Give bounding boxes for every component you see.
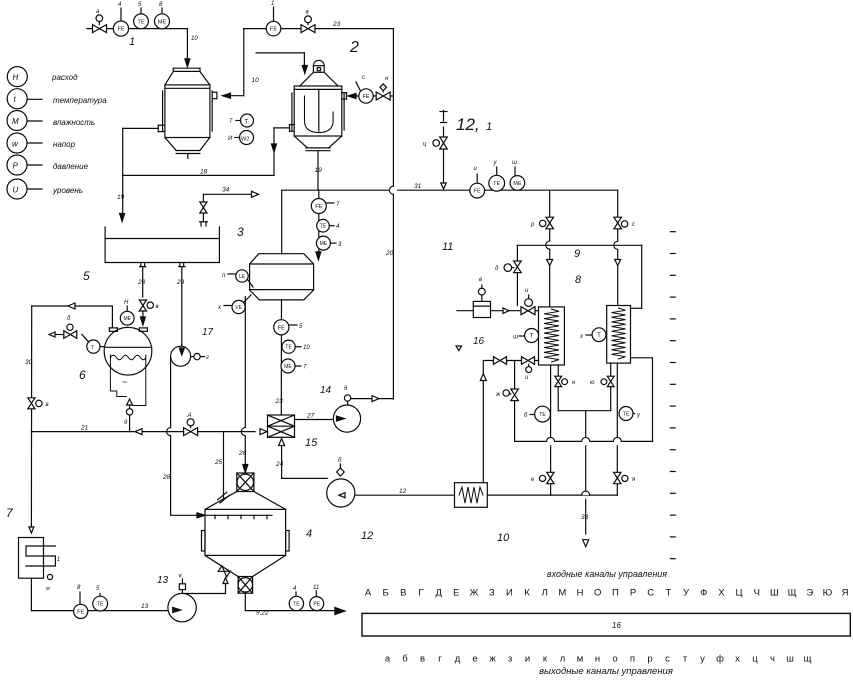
- vessel 1 shoulder: [165, 71, 173, 85]
- flow element FE5: [274, 320, 289, 335]
- svg-text:выходные каналы управления: выходные каналы управления: [539, 666, 673, 677]
- svg-text:н: н: [385, 76, 389, 82]
- svg-text:31: 31: [414, 183, 422, 190]
- moisture element ME1: [161, 8, 163, 14]
- wire branch into vessel2 right nozzle: [353, 95, 394, 97]
- vessel 4 bottom cone: [205, 555, 238, 576]
- svg-text:Т: Т: [245, 120, 249, 126]
- three-way valve at HX8 inlet: [521, 307, 528, 315]
- svg-text:16: 16: [612, 621, 621, 630]
- vessel 3 inner lines: [250, 263, 314, 265]
- svg-text:р: р: [647, 654, 652, 665]
- svg-text:U: U: [13, 186, 19, 195]
- furnace 6 right top nozzle: [139, 327, 147, 329]
- svg-text:С: С: [647, 588, 654, 599]
- wire feed line top-left: [87, 28, 187, 30]
- wire header right corner down: [617, 190, 619, 241]
- svg-text:FE: FE: [77, 609, 84, 615]
- svg-text:расход: расход: [51, 73, 78, 82]
- pump 13 circle: [168, 593, 196, 621]
- svg-text:ТЕ: ТЕ: [137, 19, 144, 25]
- valve d with actuator: [139, 300, 146, 306]
- pump 14 motor: [344, 395, 350, 401]
- svg-text:с: с: [632, 222, 635, 228]
- svg-text:13: 13: [141, 603, 149, 610]
- vessel 1 body: [165, 85, 210, 138]
- svg-text:ж: ж: [489, 654, 496, 665]
- controller 16 box: [362, 613, 850, 636]
- svg-text:7: 7: [303, 365, 307, 371]
- svg-text:19: 19: [315, 167, 323, 174]
- svg-text:Б: Б: [383, 588, 389, 599]
- filter 7 box: [19, 538, 44, 579]
- svg-text:к: к: [543, 654, 548, 665]
- temperature element TI4: [317, 219, 330, 232]
- svg-text:РЕ: РЕ: [313, 601, 320, 607]
- temperature element TI1: [140, 8, 142, 14]
- wire bypass drop from y360: [514, 361, 516, 442]
- vessel 2 agitator: [318, 89, 320, 131]
- svg-text:ц: ц: [752, 654, 758, 665]
- svg-text:в: в: [46, 402, 49, 408]
- svg-text:х: х: [735, 654, 740, 665]
- wire line 18 horizontal: [123, 174, 274, 176]
- svg-text:ТЕ: ТЕ: [623, 411, 630, 417]
- svg-text:п: п: [630, 654, 635, 665]
- svg-text:П: П: [612, 588, 619, 599]
- gauge circle left of furnace: [82, 335, 88, 342]
- svg-text:28: 28: [162, 474, 171, 481]
- svg-text:В: В: [400, 588, 406, 599]
- svg-text:д: д: [455, 654, 461, 665]
- wire box16 to 3way valve: [491, 310, 522, 312]
- moisture indicator between vessels: [240, 131, 254, 145]
- svg-text:2: 2: [349, 39, 359, 56]
- svg-text:в: в: [306, 10, 309, 16]
- furnace 6 chord: [104, 346, 151, 348]
- svg-text:МЕ: МЕ: [123, 316, 131, 322]
- svg-text:ТЕ: ТЕ: [539, 412, 546, 418]
- wire HX8 main down: [550, 365, 552, 437]
- svg-text:Н: Н: [13, 73, 19, 82]
- svg-text:Ш: Ш: [770, 588, 779, 599]
- svg-text:5: 5: [96, 586, 100, 592]
- vessel 1 bottom cone: [165, 138, 176, 151]
- svg-text:Ч: Ч: [754, 588, 760, 599]
- valve c2 with actuator: [614, 217, 622, 223]
- vessel 2 bottom cone: [294, 136, 307, 148]
- svg-text:4: 4: [118, 2, 122, 8]
- heat exchanger 8 box: [539, 307, 565, 365]
- svg-text:3: 3: [338, 242, 342, 248]
- wire FE2 line left to corner: [244, 28, 301, 30]
- svg-text:МЕ: МЕ: [320, 241, 328, 247]
- wire vertical x393 recirc: [392, 29, 394, 186]
- pump 17 motor circle: [191, 356, 194, 358]
- svg-text:12: 12: [361, 530, 373, 542]
- svg-text:10: 10: [497, 532, 510, 544]
- pump 12 circle: [327, 479, 355, 507]
- wire vessel4 discharge: [244, 593, 246, 610]
- wire valve to furnace: [142, 311, 144, 317]
- flow element FE4: [311, 199, 326, 214]
- svg-text:в: в: [479, 277, 482, 283]
- valve h with actuator: [555, 376, 562, 381]
- wire vessel3 bottom to HX15: [280, 300, 282, 415]
- furnace 6 bottom outlet: [127, 399, 133, 405]
- svg-text:4: 4: [293, 586, 297, 592]
- svg-text:8: 8: [159, 2, 163, 8]
- svg-text:я: я: [631, 477, 636, 483]
- svg-text:7: 7: [229, 119, 233, 125]
- svg-text:и: и: [525, 654, 530, 665]
- svg-text:ш: ш: [786, 654, 794, 665]
- wire bypass down-right: [515, 440, 547, 442]
- svg-text:9: 9: [124, 420, 128, 426]
- svg-text:Ж: Ж: [470, 588, 479, 599]
- svg-text:FE: FE: [362, 94, 369, 100]
- wire pump13 discharge to cone valve: [182, 593, 225, 595]
- svg-text:1: 1: [129, 36, 135, 48]
- svg-text:п: п: [222, 273, 226, 279]
- wire box16 stub: [457, 310, 473, 312]
- wire header y245 left drop: [516, 245, 518, 305]
- wire chain from header: [318, 190, 320, 252]
- wire feed to vessel4 top valve: [244, 297, 246, 428]
- wire header y190 left part: [282, 189, 390, 191]
- vessel 4 left flange: [202, 531, 206, 552]
- svg-text:10: 10: [303, 345, 310, 351]
- svg-text:б: б: [338, 458, 342, 464]
- temperature element TE8: [496, 167, 498, 175]
- vessel 4 top cone: [205, 492, 237, 510]
- svg-text:12: 12: [399, 488, 407, 495]
- svg-text:д: д: [495, 266, 499, 272]
- svg-text:ж: ж: [495, 392, 501, 398]
- svg-text:б: б: [402, 654, 408, 665]
- svg-text:6: 6: [344, 386, 348, 392]
- svg-text:Х: Х: [718, 588, 725, 599]
- pressure element PI6: [315, 591, 317, 597]
- valve p with actuator: [546, 217, 554, 223]
- vessel 2 right nozzle: [342, 92, 347, 94]
- wire feed drop into vessel 1: [186, 29, 188, 60]
- svg-text:1: 1: [57, 557, 60, 563]
- svg-text:А: А: [365, 588, 372, 599]
- svg-text:Э: Э: [806, 588, 813, 599]
- vessel 2 neck cone: [300, 72, 314, 86]
- svg-text:у: у: [636, 413, 641, 419]
- wire vent into tank: [200, 221, 208, 223]
- valve A with actuator: [184, 428, 191, 436]
- svg-text:26: 26: [238, 450, 247, 457]
- heat exchanger 8 coil: [544, 309, 559, 362]
- valve g with actuator: [511, 389, 519, 395]
- svg-text:9: 9: [574, 248, 580, 260]
- svg-text:8: 8: [575, 274, 582, 286]
- pump 17 circle: [181, 345, 183, 352]
- flow element FE1 on feed line: [120, 8, 122, 21]
- svg-text:Я: Я: [842, 588, 849, 599]
- vessel 1 bottom flange: [176, 150, 200, 152]
- svg-text:в: в: [420, 654, 425, 665]
- wire discharge to controller arrow: [335, 608, 345, 615]
- tank 5 top line: [105, 238, 219, 240]
- vessel 2 bottom flange: [306, 147, 330, 149]
- svg-text:Н: Н: [124, 300, 129, 306]
- svg-text:влажность: влажность: [53, 118, 95, 127]
- wire furnace left nozzle up and left: [111, 306, 113, 328]
- pump 12 diamond: [337, 468, 345, 476]
- svg-text:К: К: [524, 588, 530, 599]
- moisture element ME on furnace: [126, 306, 128, 311]
- legend instrument circle level: [27, 188, 42, 190]
- wire bypass line y360: [484, 360, 538, 362]
- svg-text:ю: ю: [590, 380, 595, 386]
- svg-text:о: о: [612, 654, 617, 665]
- wire tank right outlet to pump 17: [181, 267, 183, 345]
- wire valve b to right corner: [315, 28, 393, 30]
- svg-text:н: н: [595, 654, 600, 665]
- wire tank left outlet down: [142, 267, 144, 297]
- svg-text:М: М: [558, 588, 566, 599]
- steam valve with actuator: [443, 127, 445, 183]
- svg-text:л: л: [560, 654, 566, 665]
- temperature element TI10: [535, 406, 551, 422]
- vessel 3 body octagon: [250, 254, 314, 300]
- wire vessel2 left nozzle line: [274, 127, 290, 129]
- svg-text:ТЕ: ТЕ: [493, 181, 500, 187]
- svg-text:входные каналы управления: входные каналы управления: [547, 569, 667, 579]
- temperature element TI7: [99, 594, 101, 597]
- svg-text:уровень: уровень: [52, 186, 83, 195]
- svg-text:м: м: [577, 654, 584, 665]
- svg-text:ф: ф: [716, 654, 724, 665]
- svg-text:ТЕ: ТЕ: [285, 345, 292, 351]
- wire HX9 main down: [616, 363, 618, 437]
- svg-text:20: 20: [385, 250, 394, 257]
- tank 5 walls: [105, 227, 219, 263]
- svg-text:ТЕ: ТЕ: [320, 224, 327, 230]
- svg-text:25: 25: [214, 459, 223, 466]
- furnace 6 chamber: [110, 355, 145, 406]
- svg-text:ц: ц: [423, 142, 427, 148]
- wire feed into vessel4 left: [171, 514, 199, 516]
- svg-text:4: 4: [306, 528, 312, 540]
- svg-text:FE: FE: [117, 27, 124, 33]
- svg-text:МЕ: МЕ: [513, 181, 522, 187]
- svg-text:г: г: [438, 654, 442, 665]
- svg-text:у: у: [700, 654, 705, 665]
- flow element FE7: [79, 592, 81, 604]
- svg-text:23: 23: [275, 398, 284, 405]
- vessel 4 bottom rotary valve: [238, 577, 253, 594]
- tank 5 right outlet nozzle: [179, 263, 181, 267]
- svg-text:Р: Р: [630, 588, 636, 599]
- svg-text:Л: Л: [542, 588, 548, 599]
- svg-text:~: ~: [122, 377, 127, 387]
- filter 7 small circle: [47, 574, 52, 579]
- svg-text:ТЕ: ТЕ: [293, 601, 300, 607]
- legend instrument circle flow: [7, 67, 27, 87]
- svg-text:Т: Т: [530, 334, 534, 340]
- pump 13 motor: [179, 584, 185, 590]
- svg-text:давление: давление: [53, 162, 89, 171]
- wire inlet line to vessel 2 top: [256, 52, 304, 54]
- vessel 4 inner distributor: [207, 514, 273, 516]
- svg-text:ч: ч: [770, 654, 775, 665]
- tank 5 left outlet nozzle: [140, 263, 142, 267]
- moisture element ME8: [514, 167, 516, 176]
- box 16 tank: [473, 301, 490, 317]
- wire header y190 right part: [398, 189, 618, 191]
- svg-text:б: б: [524, 413, 528, 419]
- wire left vertical x31: [30, 306, 32, 526]
- temperature element TI11: [619, 407, 633, 421]
- svg-text:Ф: Ф: [700, 588, 707, 599]
- vent line 34 with open arrow: [203, 193, 251, 195]
- temperature element TI6: [295, 592, 297, 596]
- moisture element VE on vessel 3: [244, 295, 252, 303]
- legend instrument circle head: [27, 142, 42, 144]
- svg-text:ТЕ: ТЕ: [97, 601, 104, 607]
- svg-text:е: е: [531, 477, 535, 483]
- vessel 1 left nozzle: [158, 124, 165, 126]
- svg-text:7: 7: [336, 202, 340, 208]
- vessel 4 top rotary valve: [237, 473, 254, 492]
- wire HX10 top riser: [482, 361, 484, 483]
- svg-text:FE: FE: [278, 325, 285, 331]
- drain mark nabla: [456, 346, 462, 351]
- wire header y245 right drop: [641, 245, 643, 308]
- svg-text:29: 29: [176, 279, 185, 286]
- vessel 1 right nozzle: [212, 91, 217, 93]
- svg-text:5: 5: [83, 269, 90, 283]
- valve f with actuator: [514, 261, 522, 267]
- svg-text:ш: ш: [512, 160, 517, 166]
- svg-text:10: 10: [191, 36, 198, 42]
- svg-text:и: и: [525, 288, 529, 294]
- svg-text:н: н: [572, 380, 576, 386]
- temperature element TI8: [519, 335, 525, 337]
- svg-text:е: е: [472, 654, 477, 665]
- svg-text:16: 16: [473, 336, 485, 347]
- flow element FI8 on header: [476, 174, 478, 183]
- svg-text:Т: Т: [597, 333, 601, 339]
- svg-text:Д: Д: [435, 588, 442, 599]
- heat exchanger 9 box: [607, 306, 631, 364]
- moisture element ME4: [316, 236, 330, 250]
- vessel 2 body: [294, 86, 342, 136]
- svg-text:О: О: [594, 588, 601, 599]
- bypass valve plain: [494, 357, 501, 365]
- svg-text:а: а: [96, 9, 100, 15]
- wire vertical x274 down with arrow: [273, 128, 275, 175]
- svg-text:т: т: [683, 654, 688, 665]
- svg-text:Ц: Ц: [736, 588, 743, 599]
- svg-text:и: и: [474, 166, 478, 172]
- heat exchanger 15 box: [268, 415, 295, 437]
- flow element FE3 at vessel 2 inlet: [356, 82, 360, 90]
- boundary dashed line: [670, 231, 675, 233]
- svg-text:21: 21: [80, 425, 89, 432]
- svg-text:12,: 12,: [456, 115, 480, 134]
- svg-text:19: 19: [117, 194, 125, 201]
- wire vessel2 bottom drop: [317, 154, 319, 190]
- svg-text:у: у: [493, 160, 498, 166]
- svg-text:8: 8: [77, 585, 81, 591]
- steam inlet tick: [443, 110, 445, 121]
- svg-text:с: с: [362, 75, 365, 81]
- valve a with actuator: [93, 25, 100, 33]
- svg-text:Н: Н: [577, 588, 584, 599]
- filter 7 coil: [26, 545, 55, 547]
- furnace 6 left top nozzle: [109, 327, 117, 329]
- svg-text:ш: ш: [513, 335, 518, 341]
- svg-text:23: 23: [332, 21, 341, 28]
- wire 3way to HX8: [535, 310, 539, 312]
- svg-text:24: 24: [275, 461, 284, 468]
- svg-text:и: и: [525, 375, 529, 381]
- svg-text:У: У: [683, 588, 690, 599]
- heat exchanger 15 cross top: [268, 415, 295, 426]
- svg-text:VЕ: VЕ: [235, 305, 242, 311]
- valve b with actuator top: [301, 25, 308, 33]
- svg-text:FE: FE: [315, 204, 322, 210]
- svg-text:МЕ: МЕ: [284, 364, 292, 370]
- svg-text:в: в: [156, 304, 159, 310]
- svg-text:з: з: [508, 654, 512, 665]
- svg-text:щ: щ: [804, 654, 812, 665]
- vessel 4 right flange: [286, 531, 290, 552]
- svg-text:А: А: [187, 413, 192, 419]
- heat exchanger 10 box: [455, 483, 488, 508]
- svg-text:Г: Г: [418, 588, 423, 599]
- legend instrument circle moisture: [27, 120, 42, 122]
- svg-text:г: г: [206, 355, 209, 361]
- svg-text:Щ: Щ: [788, 588, 797, 599]
- valve k with actuator: [614, 472, 621, 478]
- wire header y245: [517, 244, 641, 246]
- wire line 19 down to tank: [122, 175, 124, 213]
- vessel 2 left nozzle: [290, 124, 295, 126]
- temperature indicator between vessels: [241, 114, 254, 127]
- svg-text:Т: Т: [665, 588, 671, 599]
- svg-text:З: З: [489, 588, 495, 599]
- svg-text:1: 1: [486, 121, 492, 133]
- wire vessel1 left nozzle line: [123, 127, 159, 129]
- svg-text:м: м: [46, 586, 50, 592]
- svg-text:14: 14: [320, 385, 332, 396]
- valve j with actuator: [547, 472, 554, 478]
- svg-text:13: 13: [157, 575, 169, 586]
- wire HX9 right loop: [652, 358, 654, 442]
- svg-text:9,22: 9,22: [256, 610, 269, 617]
- wire pump12 discharge to HX10: [355, 494, 455, 496]
- vessel 4 side feed flange on cone: [218, 492, 227, 500]
- svg-text:И: И: [228, 136, 233, 142]
- pump 14 circle: [333, 405, 360, 432]
- wire filter outlet: [30, 578, 32, 610]
- svg-text:температура: температура: [53, 96, 107, 105]
- svg-text:FЕ: FЕ: [474, 189, 481, 195]
- svg-text:Е: Е: [453, 588, 459, 599]
- svg-text:М: М: [12, 117, 19, 126]
- wire line 21: [31, 431, 255, 433]
- wire header corner down to vessel 3: [281, 190, 283, 254]
- svg-text:а: а: [385, 654, 391, 665]
- wire branch down to valve p: [549, 190, 551, 241]
